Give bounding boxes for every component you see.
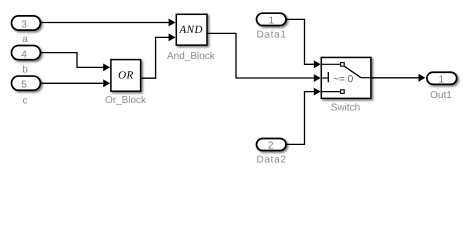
svg-text:AND: AND (178, 24, 203, 36)
Switch block (321, 57, 371, 98)
svg-text:a: a (22, 34, 28, 45)
svg-text:1: 1 (269, 15, 275, 26)
inport block 3 (a) (12, 16, 41, 31)
svg-text:4: 4 (21, 49, 27, 60)
switch out stub (361, 77, 371, 79)
svg-text:Data1: Data1 (257, 30, 287, 41)
svg-text:OR: OR (118, 69, 134, 81)
wire OR out to AND in2 (141, 34, 176, 79)
switch in1 port square (341, 63, 345, 67)
switch threshold tick (327, 72, 329, 82)
inport block 2 Data2 (257, 139, 287, 152)
svg-text:Switch: Switch (331, 103, 360, 114)
outport block 1 Out1 (427, 72, 457, 85)
switch in3 port square (341, 90, 345, 94)
svg-text:Out1: Out1 (430, 90, 452, 101)
svg-text:Or_Block: Or_Block (105, 95, 147, 106)
wire port5 to OR in2 (41, 79, 110, 87)
svg-text:1: 1 (439, 74, 445, 85)
svg-text:5: 5 (21, 80, 27, 91)
wire AND out to Switch in2 (207, 33, 321, 82)
svg-text:Data2: Data2 (257, 154, 287, 165)
switch diagonal lever (344, 66, 361, 78)
wire Switch out to Out1 (371, 74, 426, 82)
svg-text:c: c (23, 96, 28, 107)
AND block And_Block (176, 14, 207, 45)
wire port4 to OR in1 (41, 53, 110, 72)
wire Data1 to Switch in1 (286, 19, 321, 68)
svg-text:And_Block: And_Block (167, 51, 216, 62)
switch in3 stub (321, 91, 340, 93)
wire Data2 to Switch in3 (286, 88, 321, 145)
OR block Or_Block (111, 60, 141, 92)
svg-text:2: 2 (268, 140, 274, 151)
wire port3 to AND in1 (41, 19, 176, 27)
svg-text:b: b (22, 64, 28, 75)
svg-text:~= 0: ~= 0 (333, 74, 353, 85)
inport block 1 Data1 (257, 13, 287, 26)
inport block 4 (b) (12, 46, 41, 61)
inport block 5 (c) (12, 76, 41, 91)
svg-text:3: 3 (21, 20, 27, 31)
switch in1 stub (321, 63, 340, 65)
switch in2 stub (321, 77, 328, 79)
